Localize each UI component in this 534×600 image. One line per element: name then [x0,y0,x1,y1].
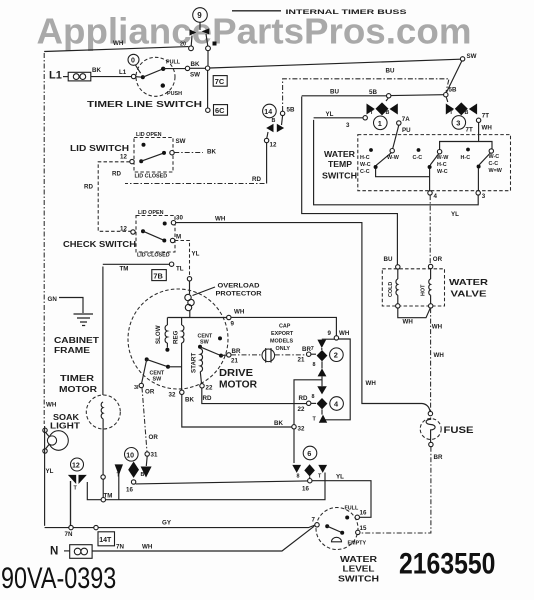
svg-text:HOT: HOT [421,284,427,296]
terminal YL 3 [326,111,368,129]
wire OR 31 [141,388,159,478]
svg-text:WATER: WATER [449,277,488,287]
svg-text:7N: 7N [65,531,73,538]
svg-text:8: 8 [313,362,316,368]
svg-text:BU: BU [330,89,339,96]
svg-text:TL: TL [176,266,184,273]
svg-text:7N: 7N [116,544,124,551]
svg-text:GN: GN [48,296,58,303]
svg-text:TIMER LINE SWITCH: TIMER LINE SWITCH [87,99,202,109]
svg-text:W-C: W-C [437,169,448,175]
wire 7T bus [440,123,492,150]
svg-text:6C: 6C [215,106,225,115]
svg-text:22: 22 [206,385,213,392]
svg-text:9: 9 [197,11,202,20]
svg-text:16: 16 [360,510,367,517]
svg-text:RD: RD [84,184,93,191]
svg-text:VALVE: VALVE [451,289,488,299]
svg-text:H-C: H-C [360,155,370,161]
svg-text:30: 30 [176,214,183,221]
water level switch [312,506,367,550]
svg-text:LID OPEN: LID OPEN [138,210,164,216]
wire BR fuse to water level switch [360,447,443,533]
fuse [420,411,473,446]
svg-text:H-C: H-C [461,155,471,161]
svg-text:YL: YL [46,468,54,475]
water temp switch arm 3 [477,149,494,169]
svg-text:WH: WH [482,125,493,132]
wire RD conn14 down and left [112,143,267,184]
wire SW down to 5B [447,61,462,92]
label water level switch [338,555,379,584]
wire BU inner [302,89,444,96]
connector 10 [115,448,145,494]
svg-text:16: 16 [126,487,133,494]
svg-text:MOTOR: MOTOR [219,380,258,391]
node BR 21 [227,348,241,365]
svg-text:SWITCH: SWITCH [338,575,379,584]
svg-text:12: 12 [270,142,277,149]
node 6C junction [206,108,210,112]
svg-text:L1: L1 [49,70,62,82]
svg-text:EXPORT: EXPORT [271,331,294,337]
svg-text:SW: SW [200,340,210,346]
svg-text:LID OPEN: LID OPEN [136,132,162,138]
connector 2-4 middle link [294,361,327,424]
connector 14 [263,104,285,148]
water valve [382,264,488,308]
svg-text:FULL: FULL [345,506,359,512]
node 5B mid [387,94,391,98]
soak light [43,402,80,454]
svg-text:PROTECTOR: PROTECTOR [216,291,263,298]
terminal 3 [476,191,480,195]
svg-text:START: START [191,353,198,373]
svg-text:W-W: W-W [387,155,400,161]
svg-text:2: 2 [334,351,338,360]
svg-text:LID CLOSED: LID CLOSED [135,174,168,180]
water temp switch dashed box [358,135,511,191]
svg-text:BK: BK [207,149,216,156]
left border lower solid (YL) [45,426,54,526]
svg-text:M: M [176,233,181,240]
ground cabinet frame [48,296,100,355]
box 7C [213,76,227,87]
svg-text:RD: RD [252,176,261,183]
label drive motor [219,368,258,391]
svg-text:22: 22 [298,406,305,413]
svg-text:7: 7 [312,517,316,524]
node 32 [292,425,296,429]
svg-text:WH: WH [432,324,443,331]
svg-text:12: 12 [72,463,80,470]
svg-text:B: B [272,118,276,124]
terminal N [50,545,92,559]
cent sw lower [142,357,182,383]
wire pivot bus to terminal 4 [376,169,430,191]
connector 2-4 frame [322,330,350,420]
svg-text:WH: WH [46,402,57,409]
svg-text:3: 3 [346,122,350,129]
cabinet frame border left [43,53,45,424]
svg-text:16: 16 [302,486,309,493]
node SW [460,57,464,61]
svg-text:31: 31 [151,452,158,459]
box 14T [98,532,115,546]
wire TM line [87,473,325,502]
node 32 motor [169,390,195,403]
svg-text:RD: RD [203,395,212,402]
svg-text:MOTOR: MOTOR [59,385,97,394]
drive motor circle [128,289,228,389]
svg-text:CHECK SWITCH: CHECK SWITCH [63,239,136,249]
svg-text:W-C: W-C [360,162,371,168]
svg-text:YL: YL [326,111,334,118]
svg-text:H-C: H-C [437,162,447,168]
wire WH valve bottom [398,308,431,326]
svg-text:FRAME: FRAME [54,346,91,355]
svg-text:OR: OR [433,256,443,263]
svg-text:RD: RD [112,171,121,178]
svg-text:3I: 3I [134,385,139,391]
svg-text:B: B [465,110,469,116]
svg-text:LEVEL: LEVEL [343,565,375,574]
overload protector [185,277,262,318]
svg-text:COLD: COLD [388,282,394,297]
node 22 motor [200,384,213,402]
cent sw upper [198,334,227,358]
node 31 top [134,383,155,395]
svg-text:YL: YL [451,211,459,218]
terminal 7A PU [397,116,412,134]
wire TM TL timer line [103,262,184,273]
svg-text:C-C: C-C [360,169,370,175]
svg-text:21: 21 [298,357,305,364]
svg-text:AppliancePartsPros.com: AppliancePartsPros.com [37,11,472,52]
svg-text:7A: 7A [402,116,410,123]
svg-text:15: 15 [360,525,367,532]
svg-text:SLOW: SLOW [155,325,162,344]
wire BU dash-dot outer [283,68,449,111]
svg-text:OR: OR [149,434,159,441]
svg-text:C-C: C-C [489,161,499,167]
wire RD lid to check [84,162,131,232]
svg-text:BR: BR [434,454,443,461]
svg-text:BK: BK [191,61,200,68]
internal timer buss label [232,9,407,16]
svg-text:C-C: C-C [413,155,423,161]
wire conn12 to GY [70,481,72,525]
svg-text:YL: YL [336,474,344,481]
wire pivot 3 to terminal 3 [477,169,479,191]
timer motor [59,267,120,498]
svg-text:12: 12 [120,154,127,161]
svg-text:1: 1 [378,119,382,128]
svg-text:YL: YL [192,251,200,258]
svg-text:RD: RD [299,395,308,402]
svg-text:WH: WH [434,352,445,359]
svg-text:LID SWITCH: LID SWITCH [70,143,129,153]
svg-text:WATER: WATER [324,150,355,159]
svg-text:9: 9 [328,330,332,337]
svg-text:10: 10 [126,452,134,459]
svg-text:4: 4 [434,193,438,200]
svg-text:WH: WH [403,319,414,326]
svg-text:N: N [50,546,58,558]
svg-text:DRIVE: DRIVE [219,368,253,379]
wire WH valve to fuse [431,308,445,411]
svg-text:BK: BK [185,397,194,404]
wire 16 line [136,474,371,518]
node 5B right [444,93,448,97]
wire YL from terminal 3 around left to YL terminal [314,118,479,218]
svg-text:5B: 5B [449,87,457,94]
svg-text:SW: SW [467,53,477,60]
connector 1 (water temp T-B) [367,98,398,130]
connector 4 [298,394,344,423]
svg-text:BK: BK [274,420,283,427]
water temp contacts fixed [360,148,503,175]
water temp switch arm 1 [374,125,399,169]
svg-text:14T: 14T [99,537,112,544]
check switch [63,210,183,259]
start winding [191,349,203,384]
wire YL check switch M down [175,241,200,277]
svg-text:BU: BU [384,256,393,263]
svg-text:REG: REG [173,330,180,344]
svg-text:WH: WH [215,216,226,223]
svg-text:CABINET: CABINET [54,336,99,345]
svg-text:9: 9 [231,321,235,328]
wire SW to top right [210,59,461,68]
svg-text:SW: SW [153,377,163,383]
box 7B [152,270,167,281]
svg-text:2163550: 2163550 [399,547,495,581]
svg-text:8: 8 [297,474,300,480]
wire BK 32 [182,395,292,428]
svg-text:TEMP: TEMP [328,160,353,169]
svg-text:W-W: W-W [437,155,450,161]
wire WH from check switch to right [176,216,430,412]
svg-text:7T: 7T [466,127,473,134]
svg-text:TM: TM [104,493,113,500]
terminal L1 [49,67,131,82]
connector 9 [180,8,217,51]
wire OR from terminal 4 to valve [430,195,442,264]
svg-text:LIGHT: LIGHT [50,422,80,431]
svg-text:TIMER: TIMER [60,374,94,383]
svg-text:WATER: WATER [340,555,377,564]
svg-text:SW: SW [176,138,186,145]
svg-text:32: 32 [298,426,305,433]
box 6C [214,105,228,116]
svg-text:PULL: PULL [166,60,181,66]
wire WH top frame [44,47,188,52]
wire WH neutral [92,526,314,551]
lid switch [70,132,186,180]
svg-text:WH: WH [339,330,350,337]
capacitor plug (export models) [262,348,306,363]
svg-text:SW: SW [190,71,200,78]
svg-text:TM: TM [120,266,129,273]
wire BU down left side to valve [302,97,398,265]
terminal 4 [428,191,432,195]
wire BK dash from lid switch [174,149,216,156]
svg-text:21: 21 [231,358,238,365]
svg-text:SWITCH: SWITCH [322,172,357,181]
svg-text:WH: WH [142,544,153,551]
svg-text:90VA-0393: 90VA-0393 [1,561,116,594]
node 5B left [280,111,284,115]
svg-text:3: 3 [456,118,460,127]
connector 6 [292,446,327,479]
svg-text:14: 14 [264,109,272,116]
svg-text:3: 3 [482,193,486,200]
connector 2 [298,340,344,368]
water temp switch arm 2 [428,150,442,170]
svg-text:7B: 7B [153,271,162,280]
wire GY [45,520,316,538]
svg-text:7C: 7C [215,77,225,86]
svg-text:W-C: W-C [489,154,500,160]
svg-text:LID CLOSED: LID CLOSED [137,253,170,259]
svg-text:PUSH: PUSH [167,91,182,97]
svg-text:MODELS: MODELS [270,339,293,345]
svg-text:EMPTY: EMPTY [348,541,367,547]
label water temp switch [322,150,357,181]
svg-text:GY: GY [162,520,172,527]
svg-text:PU: PU [402,127,411,134]
svg-text:OVERLOAD: OVERLOAD [218,283,261,290]
svg-text:7T: 7T [482,113,489,120]
svg-text:W=W: W=W [489,168,503,174]
svg-text:ONLY: ONLY [276,346,291,352]
svg-text:6: 6 [307,449,311,458]
svg-text:OR: OR [145,389,155,396]
svg-text:0: 0 [131,58,135,65]
svg-text:B: B [386,110,390,116]
svg-text:BK: BK [92,67,101,74]
svg-text:8: 8 [312,394,315,400]
svg-text:WH: WH [113,40,124,47]
svg-text:BR: BR [232,348,241,355]
timer line switch [87,54,210,109]
reg winding [173,318,184,391]
wire WH-9 motor top [168,309,337,336]
svg-text:BU: BU [386,68,395,75]
svg-text:FUSE: FUSE [444,425,474,435]
svg-text:32: 32 [169,392,176,399]
svg-text:5B: 5B [287,107,295,114]
connector 3 (water temp T-B) [446,97,477,129]
wire main timer buss vertical [207,51,209,66]
svg-text:WH: WH [234,309,245,316]
connector 12 [68,458,87,492]
label cap export models only [270,324,294,353]
wire BR to cap plug [231,354,262,356]
svg-text:L1: L1 [119,69,127,76]
svg-text:5B: 5B [369,89,377,96]
svg-text:20: 20 [180,41,186,47]
wire RD 22 [202,388,307,404]
svg-text:WH: WH [366,380,377,387]
wire 32 down to connector 6 [293,429,295,463]
svg-text:INTERNAL TIMER BUSS: INTERNAL TIMER BUSS [286,9,408,16]
slow winding [155,318,169,352]
svg-text:12: 12 [120,226,127,233]
svg-text:7: 7 [311,346,314,352]
svg-text:CAP: CAP [279,324,291,330]
terminal 7T WH [466,113,493,134]
